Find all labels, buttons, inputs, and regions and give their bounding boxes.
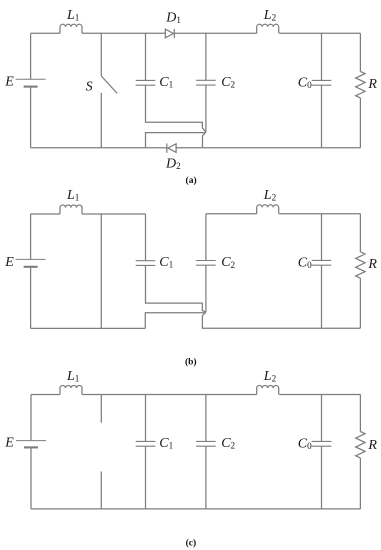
svg-text:C0: C0 bbox=[298, 256, 312, 271]
svg-text:C2: C2 bbox=[221, 436, 235, 451]
svg-text:E: E bbox=[4, 436, 14, 451]
svg-text:E: E bbox=[4, 75, 14, 90]
svg-text:(b): (b) bbox=[185, 357, 197, 368]
svg-text:C0: C0 bbox=[298, 437, 312, 452]
svg-text:L1: L1 bbox=[66, 369, 80, 384]
svg-text:C2: C2 bbox=[221, 255, 235, 270]
svg-text:D1: D1 bbox=[165, 10, 181, 25]
svg-text:C2: C2 bbox=[221, 75, 235, 90]
svg-text:C1: C1 bbox=[159, 75, 173, 90]
svg-text:L1: L1 bbox=[66, 188, 80, 203]
svg-text:(a): (a) bbox=[186, 175, 197, 186]
svg-text:C0: C0 bbox=[298, 76, 312, 91]
svg-text:L2: L2 bbox=[263, 188, 277, 203]
svg-text:E: E bbox=[4, 255, 14, 270]
svg-text:R: R bbox=[367, 438, 377, 453]
svg-text:D2: D2 bbox=[165, 157, 181, 172]
svg-text:C1: C1 bbox=[159, 255, 173, 270]
svg-text:S: S bbox=[86, 80, 93, 95]
svg-text:R: R bbox=[367, 257, 377, 272]
svg-text:L1: L1 bbox=[66, 8, 80, 23]
svg-text:R: R bbox=[367, 77, 377, 92]
svg-text:L2: L2 bbox=[263, 8, 277, 23]
svg-text:(c): (c) bbox=[186, 537, 197, 548]
svg-text:L2: L2 bbox=[263, 369, 277, 384]
svg-text:C1: C1 bbox=[159, 436, 173, 451]
